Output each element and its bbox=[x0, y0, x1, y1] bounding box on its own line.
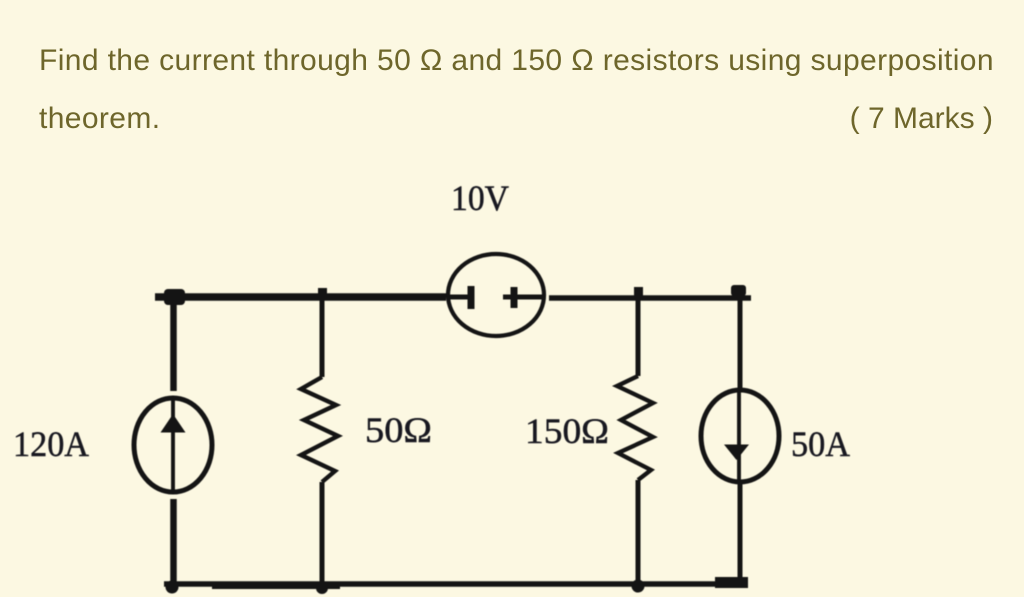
svg-text:150Ω: 150Ω bbox=[525, 411, 609, 451]
svg-text:120A: 120A bbox=[13, 424, 89, 464]
svg-text:50Ω: 50Ω bbox=[365, 410, 432, 450]
svg-text:50A: 50A bbox=[791, 424, 850, 464]
svg-text:10V: 10V bbox=[451, 178, 509, 218]
